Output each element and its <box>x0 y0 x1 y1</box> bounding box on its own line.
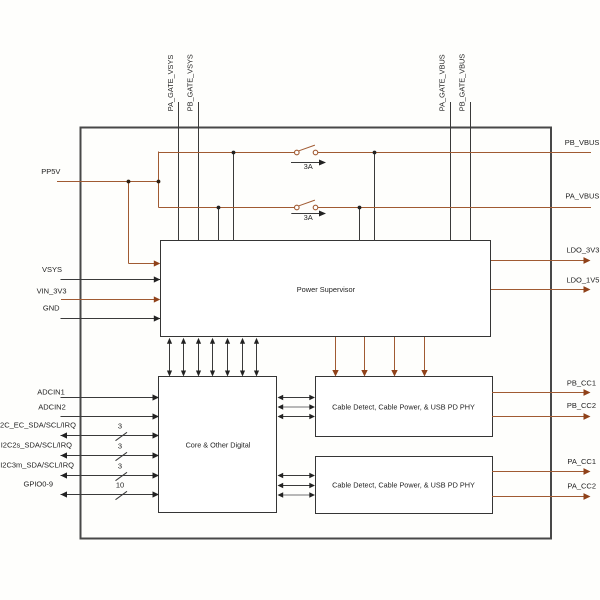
svg-text:LDO_3V3: LDO_3V3 <box>566 246 599 255</box>
svg-text:PB_GATE_VSYS: PB_GATE_VSYS <box>186 54 195 111</box>
svg-text:PB_CC1: PB_CC1 <box>567 378 596 387</box>
svg-text:Core & Other Digital: Core & Other Digital <box>186 441 251 450</box>
svg-text:I2C3m_SDA/SCL/IRQ: I2C3m_SDA/SCL/IRQ <box>0 461 74 470</box>
svg-text:VIN_3V3: VIN_3V3 <box>37 287 67 296</box>
svg-text:PA_GATE_VBUS: PA_GATE_VBUS <box>438 54 447 111</box>
svg-text:ADCIN1: ADCIN1 <box>37 388 65 397</box>
svg-text:ADCIN2: ADCIN2 <box>38 403 66 412</box>
svg-text:PA_VBUS: PA_VBUS <box>565 192 599 201</box>
svg-text:LDO_1V5: LDO_1V5 <box>566 276 599 285</box>
svg-text:GND: GND <box>43 304 60 313</box>
svg-text:3A: 3A <box>304 162 313 171</box>
svg-text:PB_CC2: PB_CC2 <box>567 401 596 410</box>
svg-text:I2C2s_SDA/SCL/IRQ: I2C2s_SDA/SCL/IRQ <box>1 441 72 450</box>
svg-text:PA_GATE_VSYS: PA_GATE_VSYS <box>166 55 175 112</box>
svg-text:3A: 3A <box>304 213 313 222</box>
svg-text:PP5V: PP5V <box>41 167 60 176</box>
svg-text:3: 3 <box>118 462 122 471</box>
svg-text:3: 3 <box>118 422 122 431</box>
svg-text:Cable Detect, Cable Power, & U: Cable Detect, Cable Power, & USB PD PHY <box>332 480 475 489</box>
svg-text:PA_CC1: PA_CC1 <box>567 457 596 466</box>
svg-text:3: 3 <box>118 442 122 451</box>
svg-text:Cable Detect, Cable Power, & U: Cable Detect, Cable Power, & USB PD PHY <box>332 402 475 411</box>
svg-text:PB_VBUS: PB_VBUS <box>565 138 600 147</box>
svg-text:Power Supervisor: Power Supervisor <box>297 285 356 294</box>
svg-text:PB_GATE_VBUS: PB_GATE_VBUS <box>457 54 466 112</box>
svg-text:10: 10 <box>116 481 124 490</box>
svg-text:VSYS: VSYS <box>42 265 62 274</box>
svg-text:I2C_EC_SDA/SCL/IRQ: I2C_EC_SDA/SCL/IRQ <box>0 421 76 430</box>
svg-text:GPIO0-9: GPIO0-9 <box>24 479 54 488</box>
svg-text:PA_CC2: PA_CC2 <box>567 481 596 490</box>
